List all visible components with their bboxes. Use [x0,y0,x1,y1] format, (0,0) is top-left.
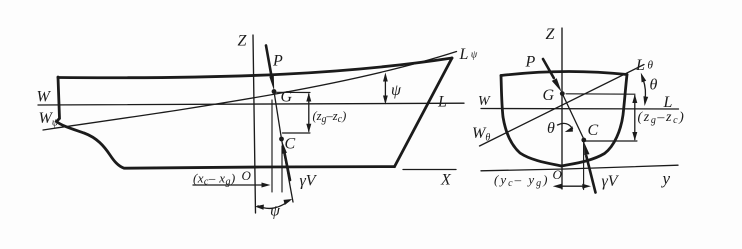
hull section left side [501,76,562,167]
weight force P arrow through G [266,46,272,80]
node G (centre of gravity, left) [272,89,277,94]
svg-text:L: L [663,94,673,111]
svg-text:θ: θ [547,120,555,137]
Z axis (right diagram) [561,28,563,189]
trim angle psi arc at bottom [258,201,290,209]
hull section right side [562,75,628,167]
dimension (z_g - z_c) tick at C level (left) [283,132,311,134]
force line through G and C [274,92,293,203]
vertical through G marking x_g [271,100,273,192]
hull section deck line [501,71,627,75]
svg-text:G: G [543,87,555,104]
hull bow and bottom [57,77,395,168]
vertical through C marking x_c [281,146,283,192]
svg-text:C: C [285,136,296,153]
svg-text:Z: Z [546,26,556,43]
buoyancy force gamma-V arrow (left) [284,152,290,180]
svg-text:G: G [281,89,293,106]
dimension (z_g - z_c) vertical with arrows (right) [634,96,636,140]
waterline W-L (right) [481,108,679,111]
svg-text:Lθ: Lθ [635,57,653,74]
svg-text:ψ: ψ [270,203,281,220]
node C (centre of buoyancy, left) [279,137,284,142]
svg-text:X: X [440,172,452,189]
svg-text:ψ: ψ [391,82,402,99]
svg-text:P: P [272,53,283,70]
heel angle theta arc (centre) [558,123,573,128]
svg-text:L: L [437,94,447,111]
svg-text:C: C [588,122,599,139]
dimension (z_g - z_c) vertical with arrows (left) [308,94,310,131]
svg-text:θ: θ [650,77,658,94]
svg-text:O: O [553,167,563,182]
trim angle psi arrow between waterlines [384,76,386,102]
dimension (z_g - z_c) tick at G level (left) [277,91,311,93]
Z axis (left diagram) [253,35,256,213]
force line through G and C (right) [562,94,584,140]
node C (right) [581,138,586,143]
y axis [481,165,678,171]
svg-text:Lψ: Lψ [459,46,478,63]
dimension (z_g - z_c) tick at C level (right) [586,140,638,142]
dimension (x_c - x_g) leader arrow [193,184,267,186]
svg-text:γV: γV [602,173,620,190]
vertical through C marking y_c [583,142,585,190]
dimension (y_c - y_g) double arrow [556,185,583,187]
waterline W-L (left) [38,103,464,105]
hull deck (sheer) line [58,58,452,78]
svg-text:O: O [242,168,252,183]
weight force P arrow (right) [543,59,554,78]
svg-text:(zg–zc): (zg–zc) [638,110,686,126]
dimension (z_g - z_c) tick at G level (right) [566,93,635,95]
svg-text:γV: γV [300,173,318,190]
svg-text:(zg–zc): (zg–zc) [313,109,347,125]
node G (right) [560,91,565,96]
heel angle theta arc (right side) [643,79,645,101]
svg-text:W: W [37,89,52,106]
svg-text:W: W [478,94,491,109]
svg-text:P: P [525,54,536,71]
buoyancy force gamma-V arrow (right) [586,156,595,193]
inclined waterline W_theta - L_theta [480,65,645,147]
svg-text:y: y [661,169,671,188]
hull stern slant [395,58,453,167]
X axis segment [403,169,456,171]
svg-text:Z: Z [238,33,248,50]
inclined waterline W_psi - L_psi [43,52,457,131]
